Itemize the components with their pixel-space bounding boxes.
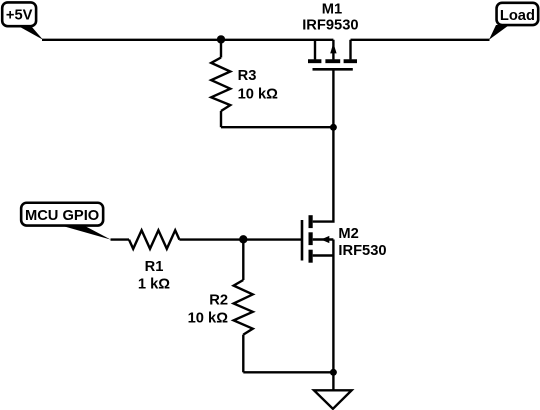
net label Load: [489, 3, 538, 40]
M2 body arrow (N-channel): [321, 236, 329, 243]
junction dot R3 top: [217, 35, 225, 43]
ground symbol: [314, 390, 352, 409]
resistor R3: [211, 40, 230, 127]
wire R2 bottom to ground node: [243, 371, 333, 373]
net label +5V: [2, 2, 43, 39]
transistor M2 IRF530 N-MOSFET: [302, 215, 333, 263]
svg-text:IRF530: IRF530: [338, 243, 386, 259]
net label MCU GPIO: [21, 203, 111, 240]
svg-text:MCU GPIO: MCU GPIO: [25, 208, 99, 224]
svg-text:M1: M1: [322, 2, 342, 18]
junction dot ground node: [330, 369, 337, 376]
resistor R1: [129, 230, 179, 249]
ground stub: [332, 372, 334, 390]
svg-text:M2: M2: [338, 226, 358, 242]
M1 body arrow (P-channel): [330, 43, 336, 53]
wire gate node to M2 drain: [313, 127, 334, 221]
svg-text:R3: R3: [238, 68, 257, 84]
wire R3 bottom to gate node: [221, 126, 333, 128]
wire M1 drain to Load (top right): [351, 39, 490, 41]
svg-text:IRF9530: IRF9530: [302, 18, 358, 34]
svg-text:+5V: +5V: [6, 8, 33, 24]
wire M2 source to ground node: [332, 256, 334, 373]
transistor M1 IRF9530 P-MOSFET: [308, 40, 357, 127]
junction dot gate node: [330, 124, 337, 131]
wire +5V to M1 source (top left): [42, 39, 333, 41]
svg-text:R2: R2: [209, 293, 228, 309]
svg-text:Load: Load: [500, 8, 535, 24]
resistor R2: [234, 240, 253, 373]
svg-text:R1: R1: [145, 259, 164, 275]
wire R1 to M2 gate: [179, 238, 302, 240]
svg-text:10 kΩ: 10 kΩ: [188, 310, 229, 326]
svg-text:10 kΩ: 10 kΩ: [238, 87, 279, 103]
wire MCU GPIO to R1: [111, 238, 130, 240]
svg-text:1 kΩ: 1 kΩ: [138, 276, 170, 292]
junction dot R2 top: [239, 235, 247, 243]
